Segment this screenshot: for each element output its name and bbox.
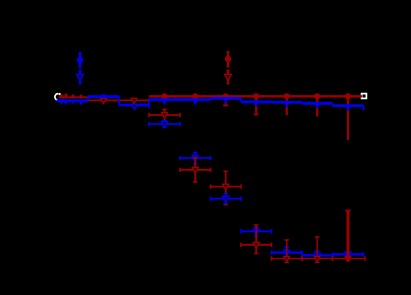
red open point bin1 (x=164.5) <box>149 110 180 121</box>
blue filled point at x=195.2 <box>192 99 198 105</box>
red filled point #1 at x=164.5 <box>161 93 167 102</box>
red filled series: left dense markers <box>60 94 83 99</box>
red open point bin5 (x=286.7) <box>272 240 303 262</box>
white open circle marker (clipped) at left end of unity row <box>55 93 61 100</box>
blue filled point at x=317.2 <box>314 103 320 109</box>
red open point bin4 (x=256.2) <box>241 225 272 254</box>
blue open point bin6 (x=317.2) <box>302 251 333 259</box>
blue open point bin2 (x=195.2) <box>180 153 211 164</box>
red filled point #6 at x=317.2 <box>314 93 320 116</box>
blue open point bin4 (x=256.2) <box>241 227 272 236</box>
blue filled series: stepped horizontal line <box>57 97 364 106</box>
red filled point #7 at x=348.0 <box>345 93 351 140</box>
blue open point bin3 (x=225.7) <box>211 194 242 204</box>
red open point bin2 (x=195.2) <box>180 158 211 183</box>
blue filled point at x=164.5 <box>161 99 167 105</box>
red open point bin7 (x=348) <box>333 211 366 262</box>
blue open point bin7 (x=348) <box>333 252 364 257</box>
red filled series: main flat line x 149-362 <box>149 95 362 97</box>
blue filled point at x=286.7 <box>284 102 290 108</box>
red open point bin3 (x=225.7) <box>211 171 242 204</box>
legend: blue open-triangle sample with error bar <box>77 70 84 84</box>
red open series: near-flat segment x 88-149 <box>88 98 149 103</box>
blue filled series: right end tick <box>363 106 365 111</box>
blue open point bin5 (x=286.7) <box>272 247 303 257</box>
red filled point #5 at x=286.7 <box>284 93 290 115</box>
legend: red open-triangle sample with error bar <box>225 70 232 84</box>
blue open point bin1 (x=164.5) <box>149 121 180 128</box>
red open point bin6 (x=317.2) <box>302 237 333 262</box>
blue filled series: left dense triangle markers <box>59 94 149 109</box>
white open square marker at right end of unity row <box>362 94 367 99</box>
legend: red filled-circle sample with error bar <box>225 52 231 68</box>
blue filled point at x=225.7 <box>223 98 229 104</box>
red filled point #4 at x=256.2 <box>253 93 259 114</box>
red filled point #3 at x=225.7 <box>223 93 229 105</box>
red filled point #2 at x=195.2 <box>192 93 198 102</box>
red filled series: left dense segment line <box>59 96 88 101</box>
legend: blue filled-circle sample with error bar <box>77 53 83 69</box>
blue filled point at x=256.2 <box>253 101 259 107</box>
blue filled point at x=348.0 <box>345 105 351 111</box>
